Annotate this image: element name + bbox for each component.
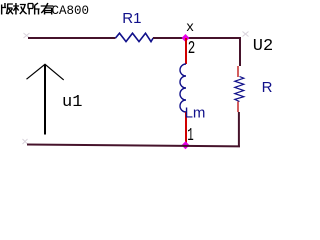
svg-text:2: 2 bbox=[188, 39, 196, 59]
node x junction dot bbox=[182, 34, 190, 42]
source u1 arrow shaft bbox=[44, 65, 46, 135]
resistor R1 bbox=[116, 33, 154, 41]
resistor R bbox=[235, 77, 244, 102]
svg-text:Lm: Lm bbox=[185, 105, 206, 122]
svg-text:1: 1 bbox=[187, 126, 194, 146]
pin stub upper of R bbox=[237, 66, 239, 77]
source u1 arrow barbs bbox=[27, 64, 64, 80]
node 1 junction dot bbox=[182, 141, 190, 149]
faint terminal mark top-right bbox=[243, 32, 249, 37]
copyright text 版权所有 (drawn strokes) bbox=[2, 3, 54, 15]
svg-text:R1: R1 bbox=[122, 10, 141, 27]
svg-text:x: x bbox=[186, 21, 194, 36]
svg-text:U2: U2 bbox=[253, 37, 273, 56]
faint terminal mark top-left bbox=[24, 33, 30, 38]
wire top-left segment bbox=[28, 37, 116, 39]
wire top-right segment bbox=[153, 37, 241, 39]
pin stub lower of R bbox=[237, 102, 239, 113]
wire bottom bbox=[27, 145, 240, 147]
svg-text:R: R bbox=[262, 79, 273, 96]
wire node x to Lm bbox=[185, 38, 187, 64]
faint terminal mark bottom-left bbox=[23, 139, 28, 144]
svg-text:CA800: CA800 bbox=[52, 4, 90, 18]
svg-text:u1: u1 bbox=[62, 93, 82, 112]
wire right branch upper bbox=[239, 37, 241, 66]
wire right branch lower bbox=[238, 112, 240, 147]
wire Lm to node 1 bbox=[185, 112, 187, 146]
inductor Lm bbox=[180, 64, 186, 112]
